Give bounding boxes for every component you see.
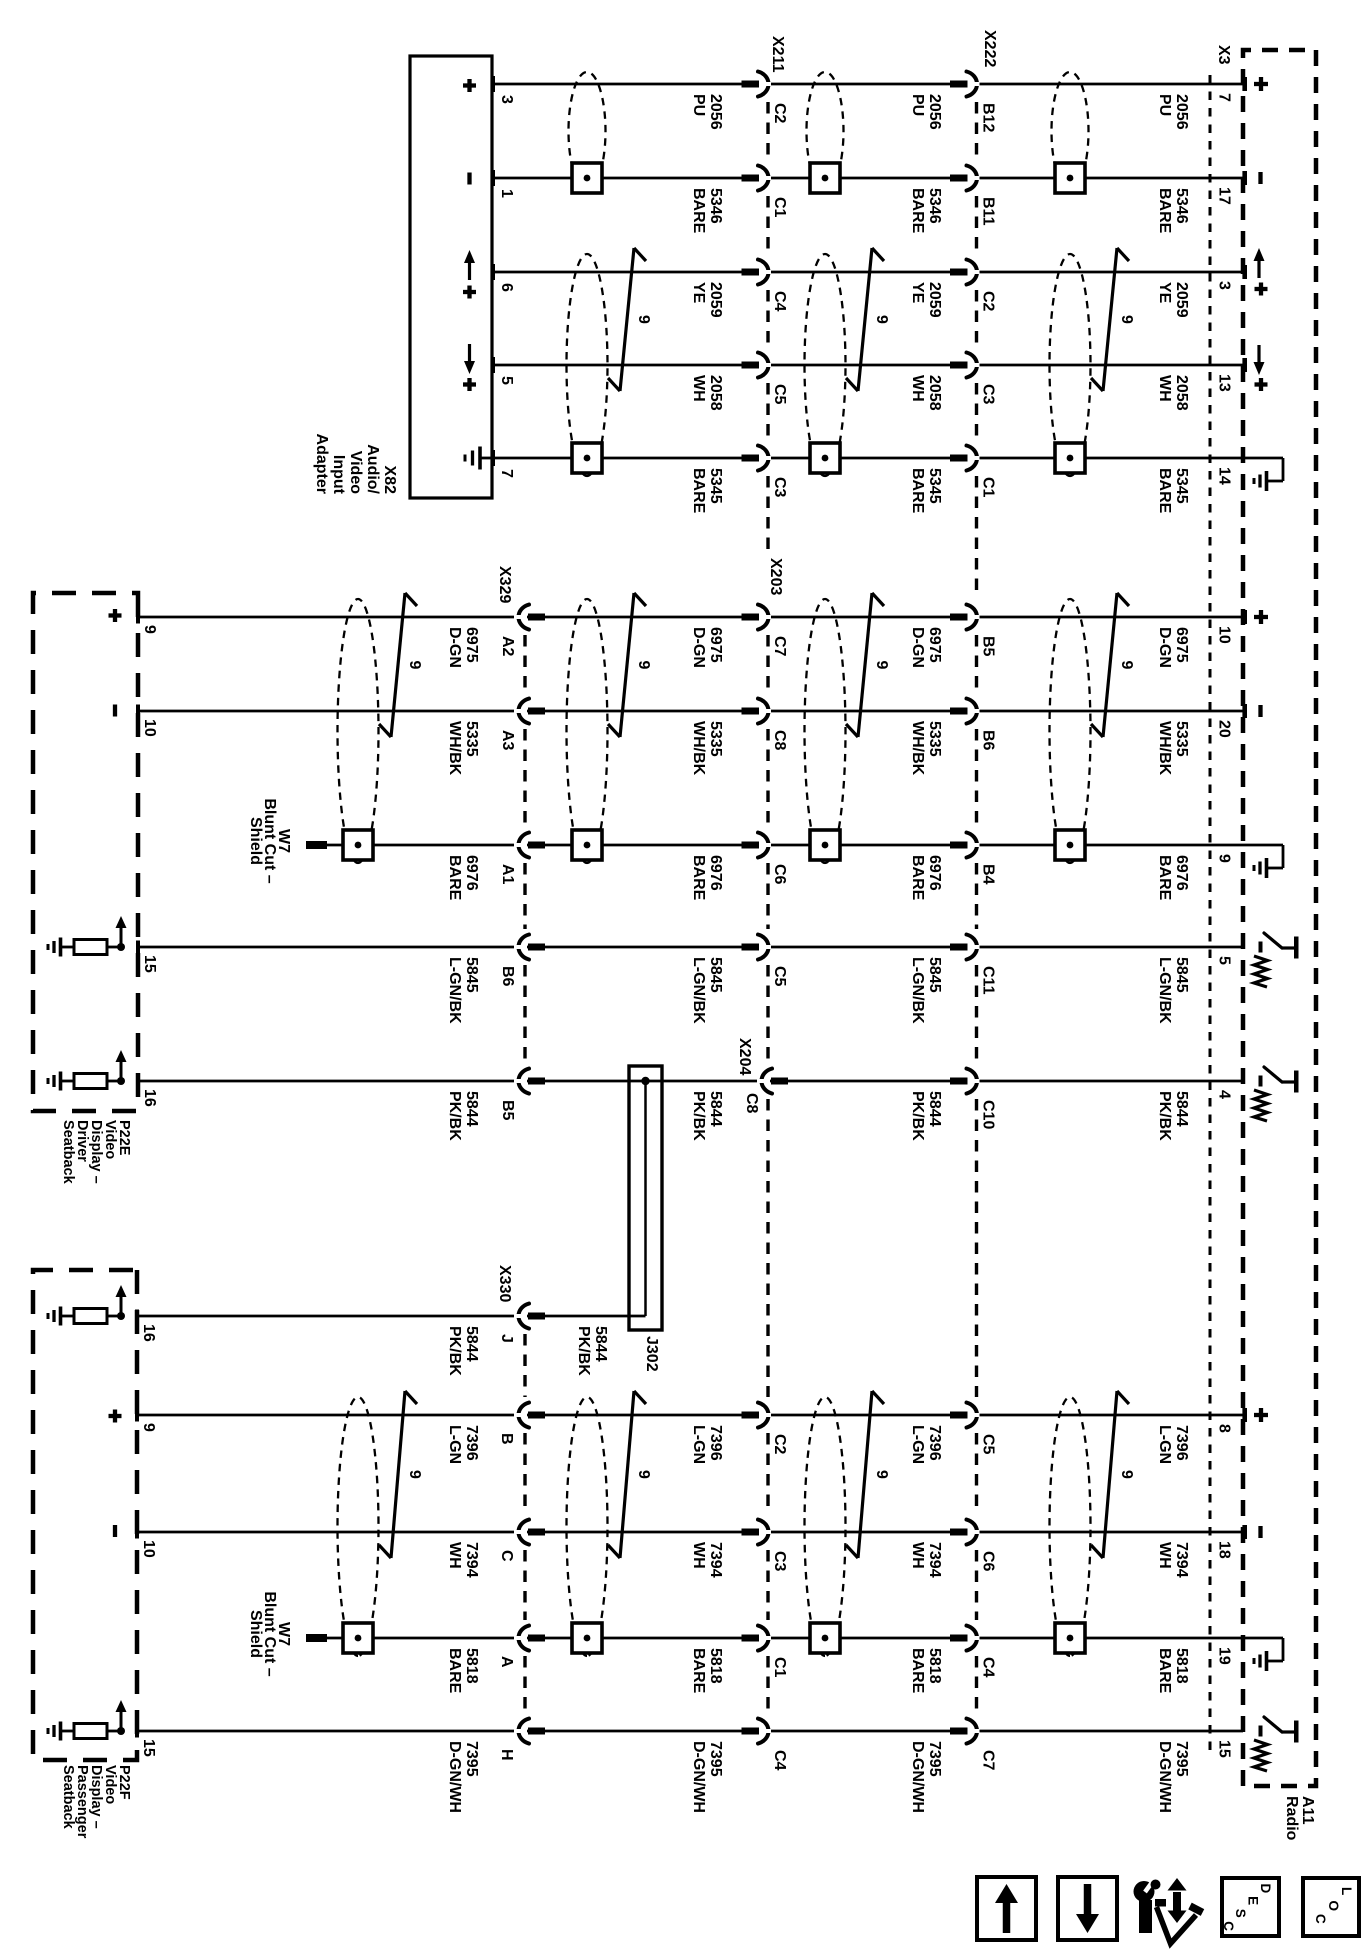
X222 terminal pin B4 xyxy=(950,842,968,849)
X211 terminal pin C1 xyxy=(742,175,760,182)
svg-text:D-GN/WH: D-GN/WH xyxy=(909,1741,926,1813)
svg-text:9: 9 xyxy=(873,315,890,324)
svg-text:9: 9 xyxy=(873,1470,890,1479)
svg-text:C2: C2 xyxy=(771,103,788,124)
svg-text:X222: X222 xyxy=(981,30,998,67)
X82 audio/video input adapter box xyxy=(410,56,492,498)
X203 terminal pin C4 group3 xyxy=(742,1728,760,1735)
svg-text:C: C xyxy=(1313,1914,1328,1924)
svg-text:Video: Video xyxy=(347,451,364,495)
svg-text:2058: 2058 xyxy=(707,375,724,411)
svg-text:7395: 7395 xyxy=(926,1741,943,1777)
P22F pin9 plus xyxy=(113,1410,117,1423)
twisted pair callout 9 group2 xyxy=(1103,593,1117,737)
svg-text:X82: X82 xyxy=(381,466,398,495)
svg-text:9: 9 xyxy=(406,1470,423,1479)
svg-text:O: O xyxy=(1326,1901,1341,1912)
X329 terminal pin B6 xyxy=(528,944,545,951)
wire 7394 WH xyxy=(137,1531,1243,1534)
svg-text:2058: 2058 xyxy=(926,375,943,411)
radio pin14 ground xyxy=(1243,457,1283,460)
shield splice square 5345 xyxy=(572,443,602,473)
wire 7396 L-GN xyxy=(137,1414,1243,1417)
svg-text:10: 10 xyxy=(140,1540,157,1558)
svg-text:L: L xyxy=(1339,1887,1354,1895)
svg-text:B4: B4 xyxy=(980,864,997,885)
svg-text:7394: 7394 xyxy=(707,1542,724,1578)
svg-text:BARE: BARE xyxy=(690,855,707,901)
svg-text:C3: C3 xyxy=(771,477,788,498)
wire 2059 YE xyxy=(492,271,1243,274)
X330 terminal pin C xyxy=(528,1529,545,1536)
svg-text:C4: C4 xyxy=(980,1657,997,1678)
svg-text:7: 7 xyxy=(1216,93,1233,102)
radio pin13 arrow and plus xyxy=(1257,345,1260,365)
wire 5818 BARE shield xyxy=(311,1637,1243,1640)
P22E pin10 minus xyxy=(113,705,117,717)
svg-text:WH/BK: WH/BK xyxy=(690,721,707,776)
svg-text:C3: C3 xyxy=(980,384,997,405)
svg-text:9: 9 xyxy=(140,1423,157,1432)
shield splice square 6976 xyxy=(343,830,373,860)
wire 2058 WH xyxy=(492,364,1243,367)
svg-text:7395: 7395 xyxy=(707,1741,724,1777)
radio connection tick pin 10 xyxy=(1242,610,1247,624)
svg-text:2059: 2059 xyxy=(926,282,943,318)
radio pin7 plus symbol xyxy=(1259,77,1263,91)
svg-text:9: 9 xyxy=(635,1470,652,1479)
wire 5844 PK/BK from P22F xyxy=(137,1315,646,1318)
svg-text:D-GN: D-GN xyxy=(690,627,707,668)
svg-text:D-GN: D-GN xyxy=(1156,627,1173,668)
svg-text:6976: 6976 xyxy=(707,855,724,891)
X222 terminal pin C11 xyxy=(950,944,968,951)
P22E pin16 ground resistor arrow xyxy=(117,1077,125,1085)
svg-text:BARE: BARE xyxy=(909,468,926,514)
svg-text:5: 5 xyxy=(1216,956,1233,965)
svg-text:WH/BK: WH/BK xyxy=(1156,721,1173,776)
svg-text:5346: 5346 xyxy=(926,188,943,224)
svg-text:Shield: Shield xyxy=(247,1610,264,1658)
svg-text:C5: C5 xyxy=(980,1434,997,1455)
svg-text:BARE: BARE xyxy=(1156,188,1173,234)
svg-text:PU: PU xyxy=(690,94,707,116)
svg-text:5335: 5335 xyxy=(1173,721,1190,757)
svg-text:5818: 5818 xyxy=(1173,1648,1190,1684)
P22E video display box dashed xyxy=(33,593,138,1111)
wire 7395 D-GN/WH xyxy=(137,1730,1243,1733)
svg-text:5844: 5844 xyxy=(463,1326,480,1362)
X329 terminal pin A2 xyxy=(528,614,545,621)
svg-text:PK/BK: PK/BK xyxy=(446,1091,463,1141)
radio connection tick pin 3 xyxy=(1242,265,1247,279)
X82 pin1 minus xyxy=(467,173,471,185)
svg-text:10: 10 xyxy=(141,719,158,737)
svg-text:PK/BK: PK/BK xyxy=(446,1326,463,1376)
svg-text:6975: 6975 xyxy=(926,627,943,663)
svg-text:5345: 5345 xyxy=(926,468,943,504)
svg-text:6975: 6975 xyxy=(1173,627,1190,663)
X203 terminal pin C3 group3 xyxy=(742,1529,760,1536)
radio pin8 plus symbol xyxy=(1259,1408,1263,1422)
svg-text:7394: 7394 xyxy=(926,1542,943,1578)
P22F pin10 minus xyxy=(113,1525,117,1537)
P22F pin15 ground resistor arrow xyxy=(117,1727,125,1735)
X203 terminal pin C1 group3 xyxy=(742,1635,760,1642)
svg-text:C10: C10 xyxy=(980,1100,997,1129)
svg-text:X211: X211 xyxy=(769,36,786,73)
svg-text:S: S xyxy=(1233,1909,1248,1918)
svg-text:5844: 5844 xyxy=(707,1091,724,1127)
P22F video display box dashed xyxy=(33,1270,137,1760)
svg-text:6: 6 xyxy=(498,283,515,292)
radio pin15 switch symbol xyxy=(1259,1726,1263,1737)
svg-text:L-GN: L-GN xyxy=(909,1425,926,1464)
X222 terminal pin C4 xyxy=(950,1635,968,1642)
svg-text:WH: WH xyxy=(1156,375,1173,402)
svg-text:C4: C4 xyxy=(771,291,788,312)
svg-text:B: B xyxy=(498,1433,515,1445)
X211 terminal pin C3 xyxy=(742,455,760,462)
wire 6976 BARE shield xyxy=(311,844,1243,847)
shield ellipse group 2059/2058/5345 xyxy=(567,254,608,476)
X203 terminal pin C6 xyxy=(742,842,760,849)
wire 5845 L-GN/BK xyxy=(138,946,1243,949)
svg-text:5845: 5845 xyxy=(1173,957,1190,993)
svg-text:9: 9 xyxy=(1216,854,1233,863)
P22E pin15 ground resistor arrow xyxy=(117,943,125,951)
radio pin19 ground xyxy=(1243,1637,1283,1640)
svg-text:X204: X204 xyxy=(736,1038,753,1075)
svg-text:D-GN/WH: D-GN/WH xyxy=(1156,1741,1173,1813)
twisted pair callout 9 group3 xyxy=(620,1391,634,1558)
X82 pin7 ground xyxy=(481,457,492,460)
svg-text:C6: C6 xyxy=(980,1551,997,1572)
P22E wire exit ticks xyxy=(136,611,140,624)
svg-text:H: H xyxy=(498,1749,515,1761)
X329 terminal pin A3 xyxy=(528,708,545,715)
svg-text:PK/BK: PK/BK xyxy=(909,1091,926,1141)
svg-text:5844: 5844 xyxy=(926,1091,943,1127)
svg-text:5818: 5818 xyxy=(926,1648,943,1684)
X222 terminal pin C6 xyxy=(950,1529,968,1536)
svg-text:A2: A2 xyxy=(499,636,516,657)
svg-text:7396: 7396 xyxy=(1173,1425,1190,1461)
svg-text:PK/BK: PK/BK xyxy=(1156,1091,1173,1141)
X82 pin6 arrow and plus xyxy=(468,260,471,280)
svg-text:E: E xyxy=(1246,1896,1261,1905)
X329 terminal pin B5 xyxy=(528,1078,545,1085)
splice J302 junction dot xyxy=(641,1077,649,1085)
X204 terminal pin C8 xyxy=(771,1078,788,1085)
svg-text:WH: WH xyxy=(1156,1542,1173,1569)
svg-text:BARE: BARE xyxy=(690,468,707,514)
shield splice square 6976 xyxy=(572,830,602,860)
connector X329/X330 dashed line xyxy=(523,635,526,693)
svg-text:L-GN/BK: L-GN/BK xyxy=(690,957,707,1024)
svg-text:2058: 2058 xyxy=(1173,375,1190,411)
svg-text:20: 20 xyxy=(1216,720,1233,738)
connector X222 dashed line xyxy=(975,102,978,160)
svg-text:B11: B11 xyxy=(980,197,997,226)
svg-text:BARE: BARE xyxy=(909,1648,926,1694)
radio connection tick pin 8 xyxy=(1242,1408,1247,1422)
svg-text:X203: X203 xyxy=(767,558,784,595)
W7 blunt cut stub G2 xyxy=(306,841,327,849)
svg-text:WH: WH xyxy=(690,1542,707,1569)
svg-text:C7: C7 xyxy=(980,1750,997,1771)
radio connection tick pin 18 xyxy=(1242,1525,1247,1539)
svg-text:9: 9 xyxy=(635,315,652,324)
svg-text:2056: 2056 xyxy=(926,94,943,130)
svg-text:B5: B5 xyxy=(499,1100,516,1121)
svg-text:C8: C8 xyxy=(771,730,788,751)
svg-text:PU: PU xyxy=(1156,94,1173,116)
svg-text:BARE: BARE xyxy=(690,188,707,234)
shield splice square 5346 xyxy=(810,163,840,193)
svg-text:C: C xyxy=(498,1550,515,1562)
svg-text:5346: 5346 xyxy=(1173,188,1190,224)
shield ellipse group 7396/7394/5818 xyxy=(567,1397,608,1656)
svg-text:6976: 6976 xyxy=(1173,855,1190,891)
icon box DESC xyxy=(1222,1878,1279,1936)
svg-text:2056: 2056 xyxy=(1173,94,1190,130)
svg-text:6976: 6976 xyxy=(926,855,943,891)
shield ellipse group 2059/2058/5345 xyxy=(1050,254,1091,476)
shield ellipse group 7396/7394/5818 xyxy=(805,1397,846,1656)
twisted pair callout 9 group2 xyxy=(620,593,634,737)
svg-text:5818: 5818 xyxy=(707,1648,724,1684)
X330 terminal pin J xyxy=(528,1313,545,1320)
svg-text:13: 13 xyxy=(1216,374,1233,392)
X329 terminal pin A1 xyxy=(528,842,545,849)
shield ellipse group 7396/7394/5818 xyxy=(1050,1397,1091,1656)
X222 terminal pin C2 xyxy=(950,269,968,276)
svg-text:WH: WH xyxy=(909,375,926,402)
shield ellipse group 6975/5335/6976 xyxy=(567,599,608,863)
svg-text:9: 9 xyxy=(1118,661,1135,670)
svg-text:15: 15 xyxy=(140,1739,157,1757)
svg-text:L-GN/BK: L-GN/BK xyxy=(1156,957,1173,1024)
svg-text:PK/BK: PK/BK xyxy=(575,1326,592,1376)
svg-text:9: 9 xyxy=(1118,1470,1135,1479)
wire 5346 BARE xyxy=(492,177,1243,180)
splice J302 rectangle xyxy=(629,1066,662,1330)
wire 6975 D-GN xyxy=(138,616,1243,619)
radio pin3 arrow and plus xyxy=(1257,258,1260,278)
svg-text:B6: B6 xyxy=(499,966,516,987)
svg-text:Adapter: Adapter xyxy=(313,434,330,494)
shield ellipse group 6975/5335/6976 xyxy=(805,599,846,863)
X222 terminal pin B6 xyxy=(950,708,968,715)
svg-text:D-GN/WH: D-GN/WH xyxy=(446,1741,463,1813)
svg-text:C8: C8 xyxy=(743,1093,760,1114)
svg-text:17: 17 xyxy=(1216,187,1233,205)
svg-text:C2: C2 xyxy=(771,1434,788,1455)
svg-text:Radio: Radio xyxy=(1283,1796,1300,1841)
radio pin18 minus symbol xyxy=(1258,1526,1262,1538)
X330 terminal pin A xyxy=(528,1635,545,1642)
X211 terminal pin C5 xyxy=(742,362,760,369)
svg-text:Seatback: Seatback xyxy=(60,1765,76,1830)
icon box arrow up xyxy=(977,1877,1036,1940)
svg-text:15: 15 xyxy=(141,955,158,973)
svg-text:BARE: BARE xyxy=(446,1648,463,1694)
shield splice square 5818 xyxy=(572,1623,602,1653)
icon wrench and connector xyxy=(1134,1881,1155,1902)
svg-text:9: 9 xyxy=(141,625,158,634)
svg-text:L-GN: L-GN xyxy=(690,1425,707,1464)
wire 5844 PK/BK from P22E xyxy=(138,1080,1243,1083)
svg-text:BARE: BARE xyxy=(1156,855,1173,901)
X211 terminal pin C4 xyxy=(742,269,760,276)
svg-text:BARE: BARE xyxy=(446,855,463,901)
X222 terminal pin B5 xyxy=(950,614,968,621)
splice J302 internal bus xyxy=(644,1081,647,1316)
svg-text:D-GN: D-GN xyxy=(909,627,926,668)
svg-text:Seatback: Seatback xyxy=(60,1120,76,1185)
svg-text:7396: 7396 xyxy=(926,1425,943,1461)
radio connection tick pin 17 xyxy=(1242,171,1247,185)
shield ellipse group 6975/5335/6976 xyxy=(1050,599,1091,863)
twisted pair callout 9 group2 xyxy=(858,593,872,737)
svg-text:YE: YE xyxy=(1156,282,1173,304)
svg-text:C7: C7 xyxy=(771,636,788,657)
wire 2056 PU xyxy=(492,83,1243,86)
svg-text:A1: A1 xyxy=(499,864,516,885)
svg-text:PU: PU xyxy=(909,94,926,116)
svg-text:C5: C5 xyxy=(771,966,788,987)
svg-text:19: 19 xyxy=(1216,1647,1233,1665)
twisted pair callout 9 group1 xyxy=(858,248,872,391)
svg-text:L-GN: L-GN xyxy=(446,1425,463,1464)
svg-text:WH/BK: WH/BK xyxy=(446,721,463,776)
svg-text:5844: 5844 xyxy=(592,1326,609,1362)
svg-text:B12: B12 xyxy=(980,103,997,132)
radio connection tick pin 20 xyxy=(1242,704,1247,718)
svg-text:C11: C11 xyxy=(980,966,997,995)
X203 terminal pin C7 xyxy=(742,614,760,621)
svg-text:5345: 5345 xyxy=(1173,468,1190,504)
svg-text:7: 7 xyxy=(498,469,515,478)
shield splice square 5345 xyxy=(810,443,840,473)
svg-text:BARE: BARE xyxy=(1156,468,1173,514)
svg-text:C: C xyxy=(1221,1921,1236,1931)
svg-text:X329: X329 xyxy=(496,566,513,603)
svg-text:16: 16 xyxy=(140,1324,157,1342)
X330 terminal pin H xyxy=(528,1728,545,1735)
X211 terminal pin C2 xyxy=(742,81,760,88)
shield splice square 5345 xyxy=(1055,443,1085,473)
svg-text:WH/BK: WH/BK xyxy=(909,721,926,776)
X203 terminal pin C8 xyxy=(742,708,760,715)
wire 5345 BARE xyxy=(492,457,1243,460)
svg-text:PK/BK: PK/BK xyxy=(690,1091,707,1141)
svg-text:C2: C2 xyxy=(980,291,997,312)
radio pin10 plus symbol xyxy=(1259,610,1263,624)
X222 terminal pin C10 xyxy=(950,1078,968,1085)
shield splice square 6976 xyxy=(810,830,840,860)
P22F pin16 ground resistor arrow xyxy=(117,1312,125,1320)
svg-text:7395: 7395 xyxy=(463,1741,480,1777)
radio pin20 minus symbol xyxy=(1258,705,1262,717)
shield ellipse pair 2056/5346 xyxy=(807,72,844,190)
svg-text:J302: J302 xyxy=(643,1336,660,1372)
X222 terminal pin C5 xyxy=(950,1412,968,1419)
X222 terminal pin B11 xyxy=(950,175,968,182)
twisted pair callout 9 group3 xyxy=(858,1391,872,1558)
svg-text:D-GN/WH: D-GN/WH xyxy=(690,1741,707,1813)
svg-text:7396: 7396 xyxy=(463,1425,480,1461)
shield splice square 5346 xyxy=(572,163,602,193)
svg-text:2059: 2059 xyxy=(707,282,724,318)
svg-text:D-GN: D-GN xyxy=(446,627,463,668)
shield ellipse group 2059/2058/5345 xyxy=(805,254,846,476)
svg-text:C3: C3 xyxy=(771,1551,788,1572)
X82 pin5 arrow and plus xyxy=(468,344,471,364)
svg-text:A: A xyxy=(498,1656,515,1668)
svg-text:BARE: BARE xyxy=(690,1648,707,1694)
svg-text:3: 3 xyxy=(498,95,515,104)
svg-text:2056: 2056 xyxy=(707,94,724,130)
svg-text:5335: 5335 xyxy=(463,721,480,757)
P22F wire exit ticks xyxy=(135,1310,139,1323)
svg-text:9: 9 xyxy=(635,661,652,670)
svg-text:5845: 5845 xyxy=(463,957,480,993)
svg-text:7394: 7394 xyxy=(463,1542,480,1578)
svg-text:C1: C1 xyxy=(771,1657,788,1678)
svg-text:10: 10 xyxy=(1216,626,1233,644)
svg-text:5844: 5844 xyxy=(463,1091,480,1127)
shield ellipse group 6975/5335/6976 xyxy=(338,599,379,863)
shield splice square 5818 xyxy=(810,1623,840,1653)
svg-text:5818: 5818 xyxy=(463,1648,480,1684)
svg-text:Input: Input xyxy=(330,455,347,495)
radio A11 dashed outline xyxy=(1243,50,1316,1786)
svg-text:7394: 7394 xyxy=(1173,1542,1190,1578)
svg-text:7395: 7395 xyxy=(1173,1741,1190,1777)
svg-text:Audio/: Audio/ xyxy=(364,444,381,494)
X203 terminal pin C2 group3 xyxy=(742,1412,760,1419)
svg-text:C5: C5 xyxy=(771,384,788,405)
svg-text:5335: 5335 xyxy=(926,721,943,757)
twisted pair callout 9 group1 xyxy=(1103,248,1117,391)
svg-text:5844: 5844 xyxy=(1173,1091,1190,1127)
twisted pair callout 9 group2 xyxy=(391,593,405,737)
shield splice square 5346 xyxy=(1055,163,1085,193)
svg-text:5: 5 xyxy=(498,376,515,385)
radio pin4 switch symbol xyxy=(1259,1076,1263,1087)
P22E pin9 plus xyxy=(113,609,117,622)
svg-text:6975: 6975 xyxy=(707,627,724,663)
icon box arrow down xyxy=(1058,1877,1117,1940)
svg-text:WH: WH xyxy=(446,1542,463,1569)
svg-text:9: 9 xyxy=(1118,315,1135,324)
svg-text:5345: 5345 xyxy=(707,468,724,504)
svg-text:7396: 7396 xyxy=(707,1425,724,1461)
X203 terminal pin C5 xyxy=(742,944,760,951)
W7 blunt cut stub G3 xyxy=(306,1634,327,1642)
svg-text:L-GN: L-GN xyxy=(1156,1425,1173,1464)
shield splice square 6976 xyxy=(1055,830,1085,860)
svg-text:A3: A3 xyxy=(499,730,516,751)
svg-text:C6: C6 xyxy=(771,864,788,885)
radio pin5 switch symbol xyxy=(1259,942,1263,953)
svg-text:8: 8 xyxy=(1216,1424,1233,1433)
twisted pair callout 9 group3 xyxy=(1103,1391,1117,1558)
svg-text:BARE: BARE xyxy=(909,855,926,901)
svg-text:2059: 2059 xyxy=(1173,282,1190,318)
